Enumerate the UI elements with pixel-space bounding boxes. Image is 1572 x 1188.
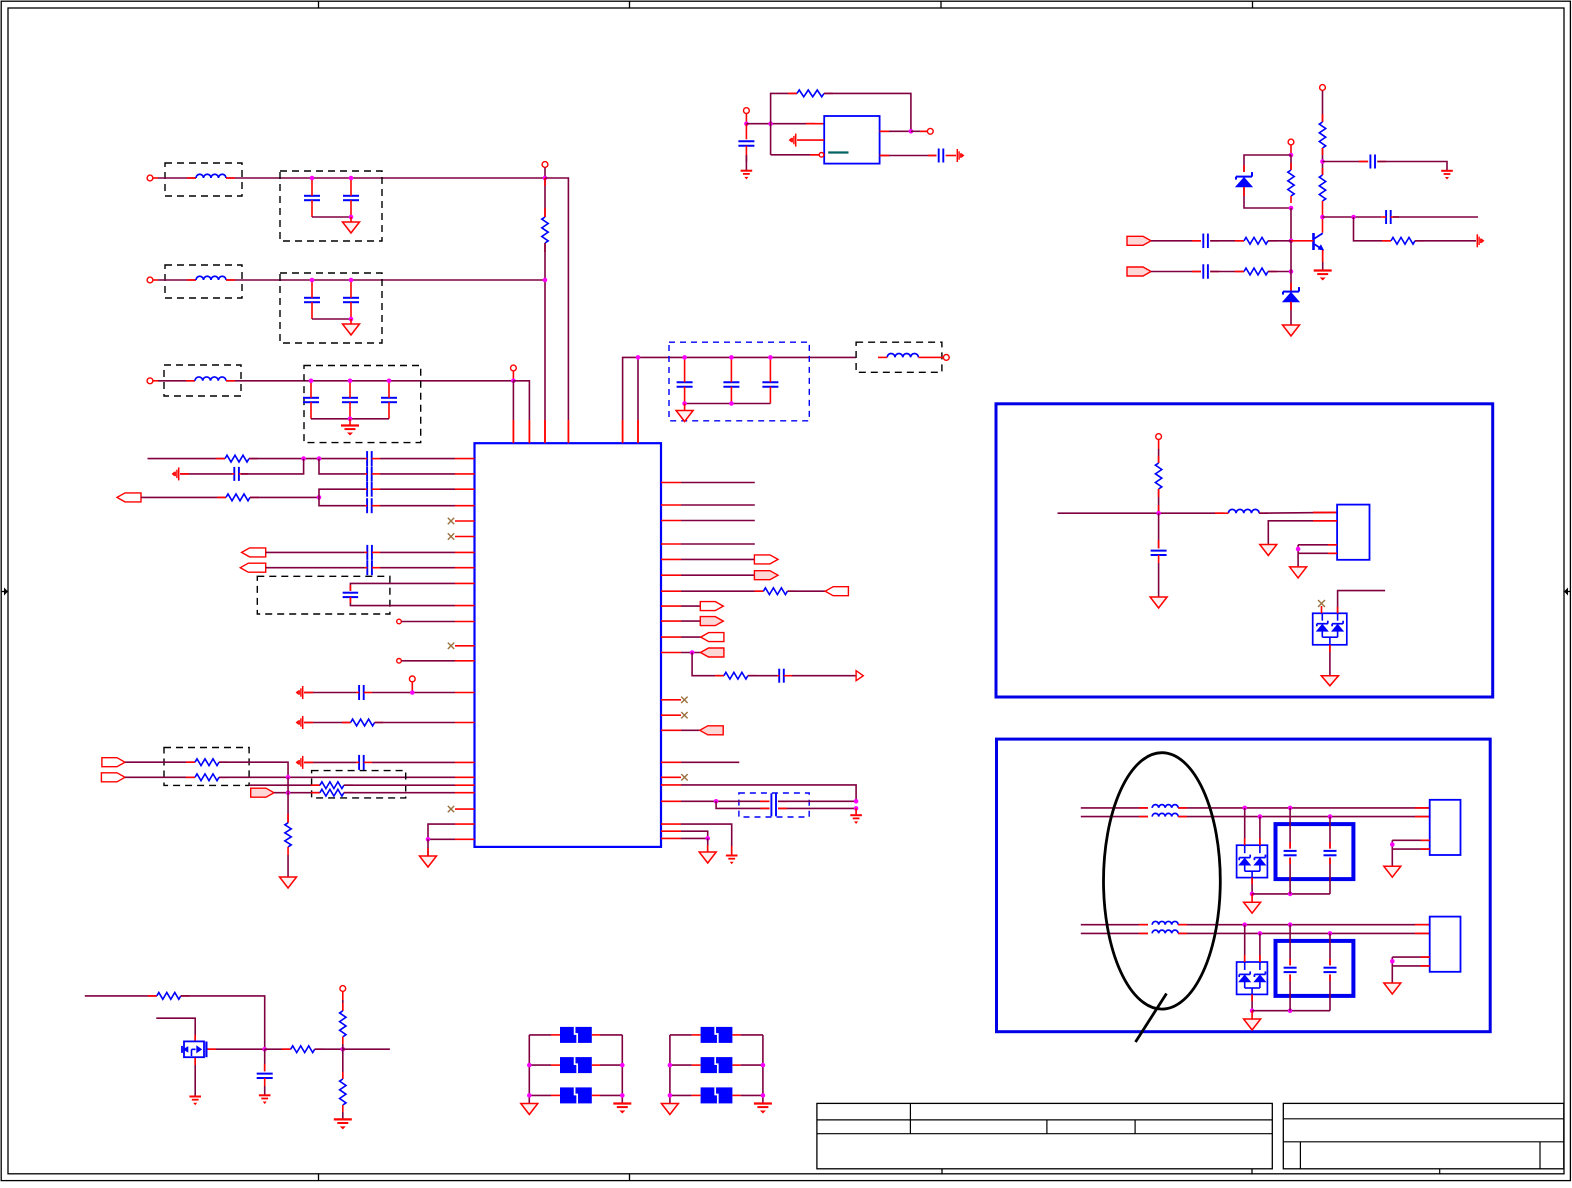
resistor R22 (340, 1000, 346, 1044)
wire node A to IC pins (513, 381, 529, 443)
inductor L5 (1224, 509, 1268, 513)
wire R17 to base node (1268, 240, 1291, 242)
wire FBA3 left (529, 1094, 551, 1096)
dashed box around L4 (856, 342, 942, 372)
capacitor C28 (1203, 264, 1219, 279)
wire right pin482 (681, 482, 755, 484)
junction node bypass (1320, 159, 1325, 164)
junction C4 bottom (349, 317, 354, 322)
power flag row692 (296, 686, 303, 699)
terminal tap row692 (409, 676, 415, 693)
wire tag567 to C17 (266, 567, 365, 569)
wire C19 to pin with tap (372, 692, 455, 694)
wire pin583 to C18 (350, 583, 455, 591)
wire ch2 line1 left (1081, 924, 1148, 926)
wire diode pack ch2 common (1251, 994, 1253, 1010)
wire R2 to C11 (249, 458, 365, 460)
wire R10 to tag (787, 590, 825, 592)
sheet frame right mid tick (1564, 588, 1570, 596)
capacitor C11 (365, 451, 380, 466)
wire C27 to R17 (1210, 240, 1244, 242)
junction ch2 common (1250, 1008, 1255, 1013)
junction U2 out (909, 129, 914, 134)
dashed box around L3 (164, 365, 241, 396)
IC U1 top pin stubs (513, 420, 638, 443)
junction C7 top (387, 379, 392, 384)
capacitor C4 (343, 280, 359, 319)
dashed box around C18 (257, 576, 390, 614)
wire C21 to arrow port (792, 675, 856, 677)
wire row808 to junction (778, 807, 856, 809)
ESD diode pack D3 (1313, 613, 1347, 645)
wire right pin730 (681, 729, 700, 731)
wire pin824 right (681, 824, 732, 854)
wire bankB left bus (669, 1035, 671, 1104)
wire OSC in to U2 pin1 (746, 123, 824, 125)
junction row839 (426, 837, 431, 842)
junction C9 top (729, 355, 734, 360)
wire C22 to junction right (778, 800, 856, 802)
capacitor C3 (304, 280, 320, 319)
title block right table (1283, 1103, 1564, 1174)
capacitor C14 (365, 482, 380, 497)
connector J ch1 (1430, 800, 1461, 855)
ESD diode pack ch2 (1237, 962, 1268, 994)
port tag out575 (754, 571, 778, 580)
wire right pin520 (681, 520, 755, 522)
ground C29 (1150, 597, 1167, 608)
wire FBB1 left (670, 1034, 692, 1036)
arrow port row675 (856, 671, 863, 681)
wire J1 pin3 (1298, 544, 1337, 546)
wire row1 branch to pin (545, 178, 568, 443)
port tag P4row (251, 788, 274, 797)
wire ch2 line2 left (1081, 932, 1148, 934)
junction row458 a (301, 456, 306, 461)
terminal OSC out (927, 128, 933, 134)
wire R6 to pin777 (219, 776, 455, 778)
junction ch1 d2 (1258, 814, 1263, 819)
wire VDD riser to IC pin (544, 243, 546, 443)
inductor L2 (196, 276, 226, 280)
resistor R20 (157, 993, 190, 1000)
wire C1 C2 common to ground (312, 216, 351, 218)
ferrite bead FBA1 (551, 1027, 600, 1043)
port tag RFin1 (1127, 236, 1151, 245)
wire U2 out pin (880, 130, 911, 132)
junction row801 left (714, 799, 719, 804)
wire P4 to R8 (274, 792, 320, 794)
resistor R2 (225, 455, 258, 462)
resistor R1 on VDD riser (542, 178, 548, 252)
wire fork down row505 (319, 497, 365, 505)
resistor R3 (226, 494, 259, 501)
ground pin824 earth (726, 856, 738, 865)
wire right pin784 long (681, 785, 856, 801)
wire FBA1 right (600, 1034, 622, 1036)
port tag out730 (700, 726, 723, 735)
junction row838 (705, 836, 710, 841)
region box middle right (996, 404, 1493, 697)
junction C9 bottom (729, 401, 734, 406)
wire right pin652 (681, 652, 701, 654)
wire J ch2 pin4 (1392, 965, 1429, 967)
ground ch2 common (1244, 1011, 1261, 1030)
wire C26 out (1393, 216, 1478, 218)
resistor R7 (320, 782, 353, 789)
wire J1 pin2 to ground (1268, 521, 1337, 545)
wire gate to R21 (265, 1048, 291, 1050)
wire L5 to J1 (1259, 511, 1337, 514)
junction P4 node (286, 790, 291, 795)
wire right pin621 (681, 620, 700, 622)
wire row652 branch down (692, 653, 724, 676)
ferrite bead FBA2 (551, 1057, 600, 1073)
resistor R19 (1155, 463, 1161, 489)
junction row652 (690, 650, 695, 655)
wire collector to C26 (1323, 216, 1382, 218)
wire C20 to pin (372, 761, 455, 763)
junction fork row497 (317, 495, 322, 500)
wire R13 to node C1t (1322, 148, 1324, 175)
resistor R8 (320, 789, 353, 796)
wire diode pack ch2 pin1 (1244, 925, 1246, 962)
wire VOUT top row (623, 357, 856, 443)
resistor R21 (291, 1046, 324, 1053)
wire FBB2 right (741, 1064, 763, 1066)
resistor R5 (195, 759, 228, 766)
junction VOUT pin2 (636, 355, 641, 360)
wire P1 to R5 (125, 761, 195, 763)
dashed box around C3 C4 (280, 273, 382, 343)
wire Q2 gate (208, 1048, 265, 1050)
junction C2 top (349, 176, 354, 181)
wire right pin505 (681, 504, 755, 506)
resistor R6 (195, 774, 228, 781)
resistor R9 to ground (285, 793, 291, 855)
no-connect pin row809 (448, 806, 454, 812)
junction bias bottom (1289, 206, 1294, 211)
common mode choke T ch2 (1152, 921, 1178, 933)
no-connect pin row699 (681, 697, 687, 703)
power flag row722 (296, 716, 303, 729)
wire bias parallel bottom (1244, 187, 1291, 208)
junction bankA R2 (620, 1063, 625, 1068)
wire row458b down to C13 (319, 459, 365, 474)
wire C17 to pin (380, 567, 455, 569)
junction row808 right (854, 806, 859, 811)
junction VDD row1 (543, 176, 548, 181)
junction ch2 c1 (1288, 922, 1293, 927)
capacitor C7 (381, 381, 397, 419)
wire right pin801 (681, 800, 770, 802)
wire bias to base node (1290, 208, 1292, 241)
resistor R18 (1244, 268, 1277, 275)
wire FBA3 right (600, 1094, 622, 1096)
wire Q2 drain (156, 1018, 195, 1042)
wire C11 to pin (380, 458, 455, 460)
connector J ch2 (1430, 917, 1461, 972)
wire ch1 bottom bus (1252, 893, 1330, 895)
wire flag722 to R4 (304, 722, 351, 724)
junction ch1 c2 (1328, 814, 1333, 819)
junction tap row692 (410, 690, 415, 695)
wire FBB3 left (670, 1094, 692, 1096)
capacitor Ca ch2 (1284, 925, 1297, 1011)
wire R23 to ground (342, 1112, 344, 1119)
junction bankB R2 (761, 1063, 766, 1068)
ground row808 earth (850, 808, 862, 824)
port tag RXIN (117, 493, 141, 502)
wire C5 C6 C7 common (311, 418, 389, 420)
capacitor C19 (356, 685, 372, 700)
ground OSC earth (741, 171, 753, 180)
wire C16 to pin (380, 551, 455, 553)
wire into R7 row785 (249, 784, 320, 786)
wire C8 C9 C10 common (685, 403, 771, 405)
wire right pin637 (681, 636, 701, 638)
capacitor C17 (365, 560, 381, 575)
junction ch2 d2 (1258, 931, 1263, 936)
port tag out606 (700, 602, 723, 611)
ground bankB left (661, 1104, 678, 1115)
capacitor Cb ch2 (1324, 933, 1337, 1010)
resistor R4 (351, 719, 383, 726)
inductor L4 (878, 354, 927, 358)
wire Q1 emitter (1322, 250, 1324, 271)
resistor R23 (340, 1049, 346, 1112)
dashed box around L2 (165, 265, 242, 298)
wire tag552 to C16 (266, 551, 365, 553)
port tag RFin2 (1127, 267, 1151, 276)
wire P2-P4 riser (287, 777, 289, 792)
port tag P1row (102, 758, 125, 767)
no-connect bubble pin620 (397, 619, 455, 624)
wire P2 to R6 (125, 776, 195, 778)
wire bankA left bus (528, 1035, 530, 1104)
junction C5 top (309, 379, 314, 384)
wire Q2 source (194, 1058, 196, 1097)
wire bankA right bus (621, 1035, 623, 1104)
ground divider (334, 1119, 352, 1129)
wire pin838 (681, 837, 708, 839)
ground bypass earth (1441, 171, 1453, 180)
junction bankB L2 (668, 1063, 673, 1068)
wire C29 to ground (1158, 563, 1160, 597)
dashed box around C1 C2 (280, 171, 382, 241)
junction collector branch (1351, 215, 1356, 220)
capacitor C1 (304, 178, 320, 217)
wire divider out (343, 1048, 390, 1050)
wire J1 pin4 (1298, 552, 1337, 554)
power flag AVDD row474 (172, 467, 179, 480)
ground D3 (1321, 676, 1338, 686)
wire C14 to pin (380, 488, 455, 490)
wire flag762 to C20 (304, 761, 356, 763)
capacitor C26 (1381, 210, 1399, 224)
common mode choke T ch1 (1152, 805, 1178, 817)
wire RFin2 to C28 (1151, 271, 1201, 273)
power flag row762 (296, 756, 303, 769)
wire VCC to R13 (1322, 100, 1324, 122)
junction row458 b (317, 456, 322, 461)
capacitor C12 (232, 467, 248, 481)
capacitor C5 (303, 381, 319, 419)
wire row2 L2 to node VIN2 (226, 279, 545, 281)
wire U2 out to terminal (911, 130, 927, 132)
wire base node to Q1 (1291, 240, 1314, 242)
wire FBB3 right (741, 1094, 763, 1096)
no-connect D3 pin1 (1318, 600, 1325, 613)
wire C15 to pin (380, 505, 455, 507)
ground row2 filter (343, 319, 360, 335)
capacitor C29 (1151, 513, 1167, 563)
wire ch2 line1 right (1178, 924, 1430, 926)
wire ch1 line2 left (1081, 816, 1148, 818)
wire U2 pin5 to C24 (880, 155, 937, 157)
wire U2 pin3 inverted (771, 154, 819, 156)
wire R21 to divider (315, 1048, 343, 1050)
wire riser pin3 (770, 124, 772, 155)
no-connect pin row521 (448, 518, 454, 524)
ESD diode pack ch1 (1237, 845, 1268, 877)
resistor R14 (1319, 175, 1325, 201)
capacitor C10 (762, 357, 778, 403)
capacitor C16 (365, 545, 381, 560)
region box bottom right (997, 739, 1491, 1032)
wire C24 to flag (946, 155, 956, 157)
terminal P2 row2 (147, 277, 158, 283)
ground bankB right (754, 1104, 772, 1114)
junction bias top (1289, 153, 1294, 158)
IC U1 right pin stubs (661, 483, 681, 839)
junction C4 top (349, 278, 354, 283)
dashed box around L1 (165, 163, 242, 196)
wire riser to D2 (1290, 241, 1292, 292)
wire R3 to fork (250, 496, 319, 498)
junction ch2 cap1 bottom (1288, 1008, 1293, 1013)
wire flag to C12 (180, 473, 232, 475)
wire D3 common to ground (1329, 645, 1331, 676)
no-connect pin row536 (448, 533, 454, 539)
wire R4 to pin (375, 722, 455, 724)
ground J ch1 (1384, 866, 1401, 877)
capacitor array box ch2 (1276, 941, 1354, 996)
junction J ch1 pins34 (1390, 842, 1395, 847)
junction C3 top (310, 278, 315, 283)
ground C30 (259, 1095, 271, 1104)
power flag U2 pin2 (789, 134, 796, 147)
wire D3 pin2 up (1338, 591, 1386, 614)
capacitor C8 (677, 357, 693, 403)
terminal base bias (1288, 139, 1294, 155)
capacitor C15 (365, 498, 380, 513)
wire R15 to flag (1415, 240, 1476, 242)
junction OSC feedback (768, 121, 773, 126)
ferrite bead FBB2 (692, 1057, 741, 1073)
no-connect pin row777r (681, 774, 687, 780)
wire ch1 line2 right (1178, 816, 1430, 818)
junction OSC in (744, 121, 749, 126)
transistor Q1 (1314, 233, 1325, 251)
ground row3 filter earth (341, 419, 359, 436)
title block left table (817, 1103, 1272, 1168)
wire J ch1 pin3 (1392, 839, 1429, 841)
ground P riser (280, 877, 297, 888)
capacitor C20 (356, 755, 372, 770)
junction ch2 c2 (1328, 931, 1333, 936)
wire C25 to ground (1377, 162, 1447, 171)
wire row2 terminal to L2 (158, 279, 196, 281)
capacitor Cb ch1 (1324, 817, 1337, 894)
terminal Q1 VCC (1320, 85, 1326, 100)
junction C6 bottom (348, 417, 353, 422)
wire C12 up to row458 (241, 459, 304, 474)
wire ch1 line1 left (1081, 807, 1148, 809)
port tag row567 (240, 563, 265, 572)
capacitor C22 (771, 793, 787, 816)
wire feedback riser (771, 93, 797, 123)
terminal P1 row1 (147, 175, 158, 181)
wire pin824 corner (428, 824, 455, 839)
wire ch1 line1 right (1178, 807, 1430, 809)
annotation ellipse (1104, 753, 1221, 1009)
ground J ch2 (1384, 983, 1401, 994)
ground bankA right (613, 1104, 631, 1114)
port tag out652 (701, 648, 724, 657)
terminal node A row3 (511, 365, 517, 381)
connector J1 (1337, 505, 1369, 560)
junction bankA R3 (620, 1093, 625, 1098)
wire C30 to ground (264, 1086, 266, 1095)
wire diode pack ch1 pin2 (1259, 817, 1261, 846)
junction J1 pins34 (1296, 547, 1301, 552)
zener D1 (1236, 172, 1252, 187)
wire R7 to pin (344, 784, 455, 786)
wire R14 to collector (1322, 201, 1324, 233)
wire right pin762 (681, 761, 739, 763)
wire C18 to pin605 (350, 597, 455, 606)
terminal P3 row3 (147, 378, 158, 384)
junction ch1 cap1 bottom (1288, 892, 1293, 897)
junction J ch2 pins34 (1390, 959, 1395, 964)
wire R5 to corner (219, 762, 288, 777)
dashed box around R5 R6 (164, 748, 249, 786)
capacitor C18 (343, 593, 359, 597)
junction C2 bottom (349, 215, 354, 220)
capacitor C2 (343, 178, 359, 217)
wire row1 L1 to node VIN1 (226, 177, 545, 179)
IC U1 left pin stubs (455, 459, 475, 840)
wire RFin1 to C27 (1151, 240, 1201, 242)
wire right pin606 (681, 605, 700, 607)
wire branch down to R15 (1354, 217, 1392, 241)
port tag out591 (825, 587, 848, 596)
wire J ch1 pin4 (1392, 848, 1429, 850)
junction ch1 d1 (1242, 806, 1247, 811)
wire J1 pins34 riser (1297, 545, 1299, 554)
wire right pin575 (681, 574, 754, 576)
IC U1 body (475, 443, 662, 847)
junction bankA L2 (527, 1063, 532, 1068)
wire R9 to ground (287, 855, 289, 877)
resistor R10 (763, 588, 796, 595)
capacitor array box ch1 (1276, 824, 1354, 879)
wire into R2 (148, 458, 226, 460)
junction bankB L3 (668, 1093, 673, 1098)
terminal ANT VDD (1156, 434, 1162, 449)
wire right pin559 (681, 558, 754, 560)
